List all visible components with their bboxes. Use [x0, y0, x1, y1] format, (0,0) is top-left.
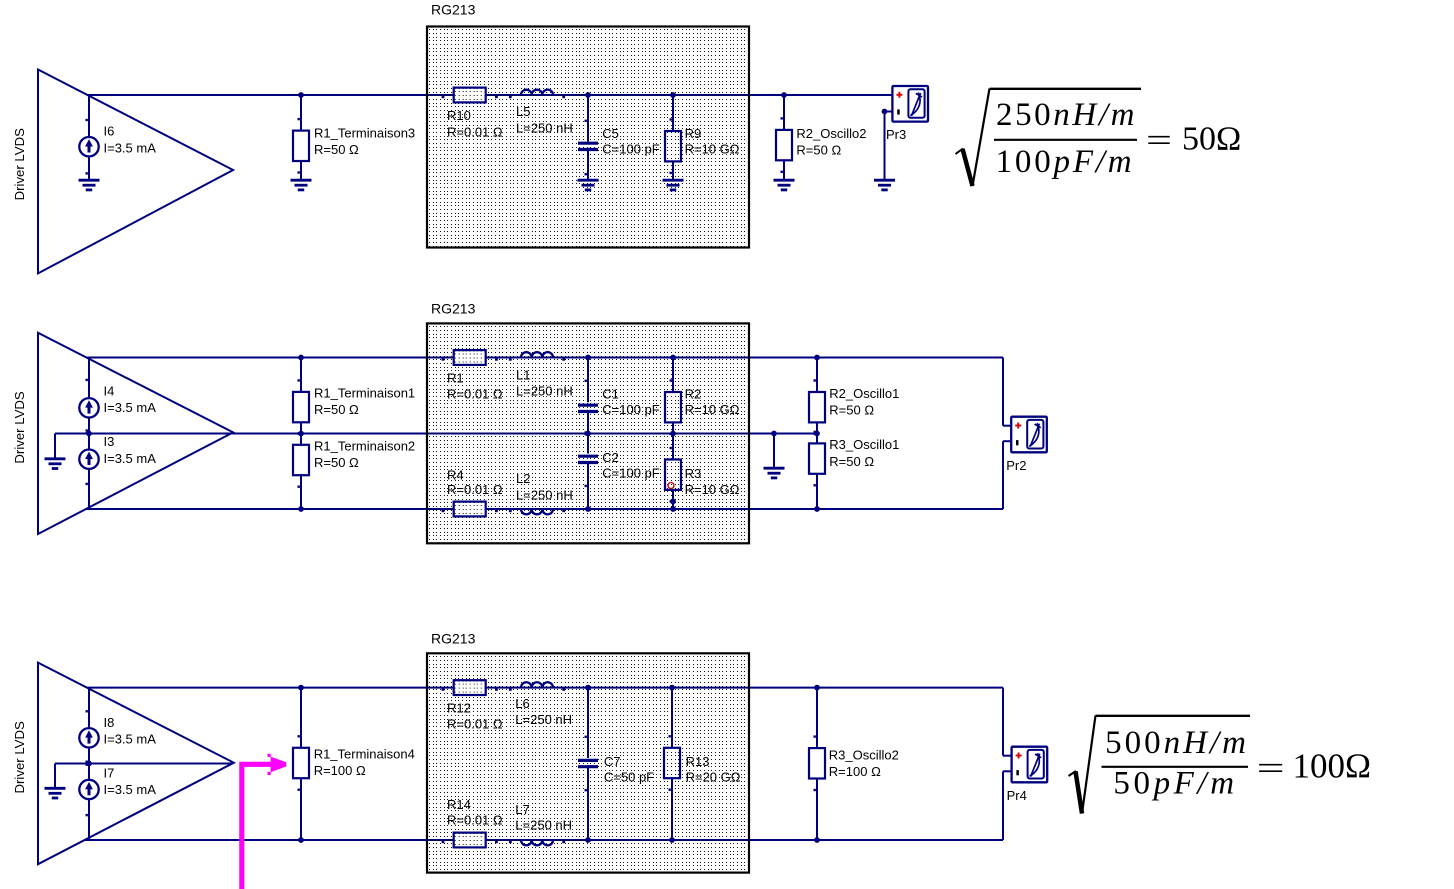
svg-text:=: = [1257, 751, 1285, 787]
svg-text:C1: C1 [602, 387, 619, 402]
svg-text:I6: I6 [104, 124, 115, 139]
svg-text:R14: R14 [447, 797, 471, 812]
svg-text:R4: R4 [447, 468, 464, 483]
svg-text:R=50 Ω: R=50 Ω [829, 402, 874, 417]
svg-text:R=0.01 Ω: R=0.01 Ω [447, 717, 503, 732]
svg-text:R3: R3 [685, 466, 702, 481]
svg-text:I=3.5 mA: I=3.5 mA [104, 732, 157, 747]
svg-text:I=3.5 mA: I=3.5 mA [104, 400, 157, 415]
svg-text:C5: C5 [602, 126, 619, 141]
svg-text:R=50 Ω: R=50 Ω [796, 143, 841, 158]
svg-text:R2_Oscillo2: R2_Oscillo2 [796, 126, 866, 141]
svg-text:250nH/m: 250nH/m [996, 97, 1137, 133]
svg-text:R=100 Ω: R=100 Ω [829, 764, 881, 779]
svg-text:C=50 pF: C=50 pF [604, 769, 654, 784]
svg-text:L=250 nH: L=250 nH [515, 817, 572, 832]
svg-text:Pr2: Pr2 [1006, 458, 1026, 473]
svg-text:L5: L5 [516, 104, 530, 119]
svg-text:R3_Oscillo1: R3_Oscillo1 [829, 437, 899, 452]
svg-text:R12: R12 [447, 701, 471, 716]
svg-text:L7: L7 [515, 802, 529, 817]
svg-text:R13: R13 [686, 754, 710, 769]
svg-text:R=20 GΩ: R=20 GΩ [686, 769, 741, 784]
svg-text:RG213: RG213 [431, 631, 476, 647]
svg-text:R=0.01 Ω: R=0.01 Ω [447, 387, 503, 402]
svg-text:R3_Oscillo2: R3_Oscillo2 [829, 748, 899, 763]
svg-text:R1_Terminaison2: R1_Terminaison2 [314, 438, 415, 453]
svg-text:R=50 Ω: R=50 Ω [314, 142, 359, 157]
svg-text:Driver LVDS: Driver LVDS [12, 128, 27, 201]
svg-text:C=100 pF: C=100 pF [602, 402, 660, 417]
svg-text:R=50 Ω: R=50 Ω [829, 454, 874, 469]
svg-text:I=3.5 mA: I=3.5 mA [104, 140, 157, 155]
svg-text:Pr4: Pr4 [1007, 788, 1027, 803]
svg-text:C2: C2 [602, 450, 619, 465]
svg-text:R1_Terminaison3: R1_Terminaison3 [314, 125, 415, 140]
svg-text:R=10 GΩ: R=10 GΩ [685, 402, 740, 417]
svg-text:L=250 nH: L=250 nH [516, 120, 573, 135]
svg-text:Driver LVDS: Driver LVDS [12, 721, 27, 794]
svg-text:L2: L2 [516, 471, 530, 486]
svg-text:I3: I3 [104, 434, 115, 449]
svg-text:R=50 Ω: R=50 Ω [314, 402, 359, 417]
svg-text:I8: I8 [104, 715, 115, 730]
svg-text:R=10 GΩ: R=10 GΩ [685, 141, 740, 156]
svg-text:I4: I4 [104, 384, 115, 399]
svg-text:R=0.01 Ω: R=0.01 Ω [447, 482, 503, 497]
svg-text:R2_Oscillo1: R2_Oscillo1 [829, 386, 899, 401]
svg-text:R=0.01 Ω: R=0.01 Ω [447, 812, 503, 827]
svg-text:R1_Terminaison1: R1_Terminaison1 [314, 386, 415, 401]
svg-text:I=3.5 mA: I=3.5 mA [104, 782, 157, 797]
svg-text:L=250 nH: L=250 nH [515, 712, 572, 727]
svg-text:C=100 pF: C=100 pF [602, 465, 660, 480]
svg-text:I=3.5 mA: I=3.5 mA [104, 451, 157, 466]
svg-text:L1: L1 [516, 368, 530, 383]
svg-text:R1: R1 [447, 370, 464, 385]
svg-text:100pF/m: 100pF/m [996, 144, 1135, 180]
svg-text:C7: C7 [604, 754, 621, 769]
svg-text:Driver LVDS: Driver LVDS [12, 391, 27, 464]
svg-text:Pr3: Pr3 [886, 127, 906, 142]
svg-text:50Ω: 50Ω [1182, 121, 1241, 158]
svg-text:RG213: RG213 [431, 301, 476, 317]
svg-text:=: = [1146, 123, 1172, 159]
svg-text:R=0.01 Ω: R=0.01 Ω [447, 124, 503, 139]
svg-text:RG213: RG213 [431, 2, 476, 18]
svg-text:R=100 Ω: R=100 Ω [314, 763, 366, 778]
svg-text:L=250 nH: L=250 nH [516, 384, 573, 399]
svg-text:R10: R10 [447, 108, 471, 123]
svg-text:L=250 nH: L=250 nH [516, 487, 573, 502]
svg-text:R1_Terminaison4: R1_Terminaison4 [314, 747, 415, 762]
svg-text:I7: I7 [104, 765, 115, 780]
svg-text:100Ω: 100Ω [1293, 747, 1372, 786]
svg-text:L6: L6 [515, 696, 529, 711]
svg-text:R=10 GΩ: R=10 GΩ [685, 482, 740, 497]
svg-text:500nH/m: 500nH/m [1105, 725, 1249, 761]
svg-text:C=100 pF: C=100 pF [602, 141, 660, 156]
svg-text:R=50 Ω: R=50 Ω [314, 455, 359, 470]
svg-text:R2: R2 [685, 387, 702, 402]
svg-text:R9: R9 [685, 126, 702, 141]
svg-text:50pF/m: 50pF/m [1113, 766, 1237, 802]
